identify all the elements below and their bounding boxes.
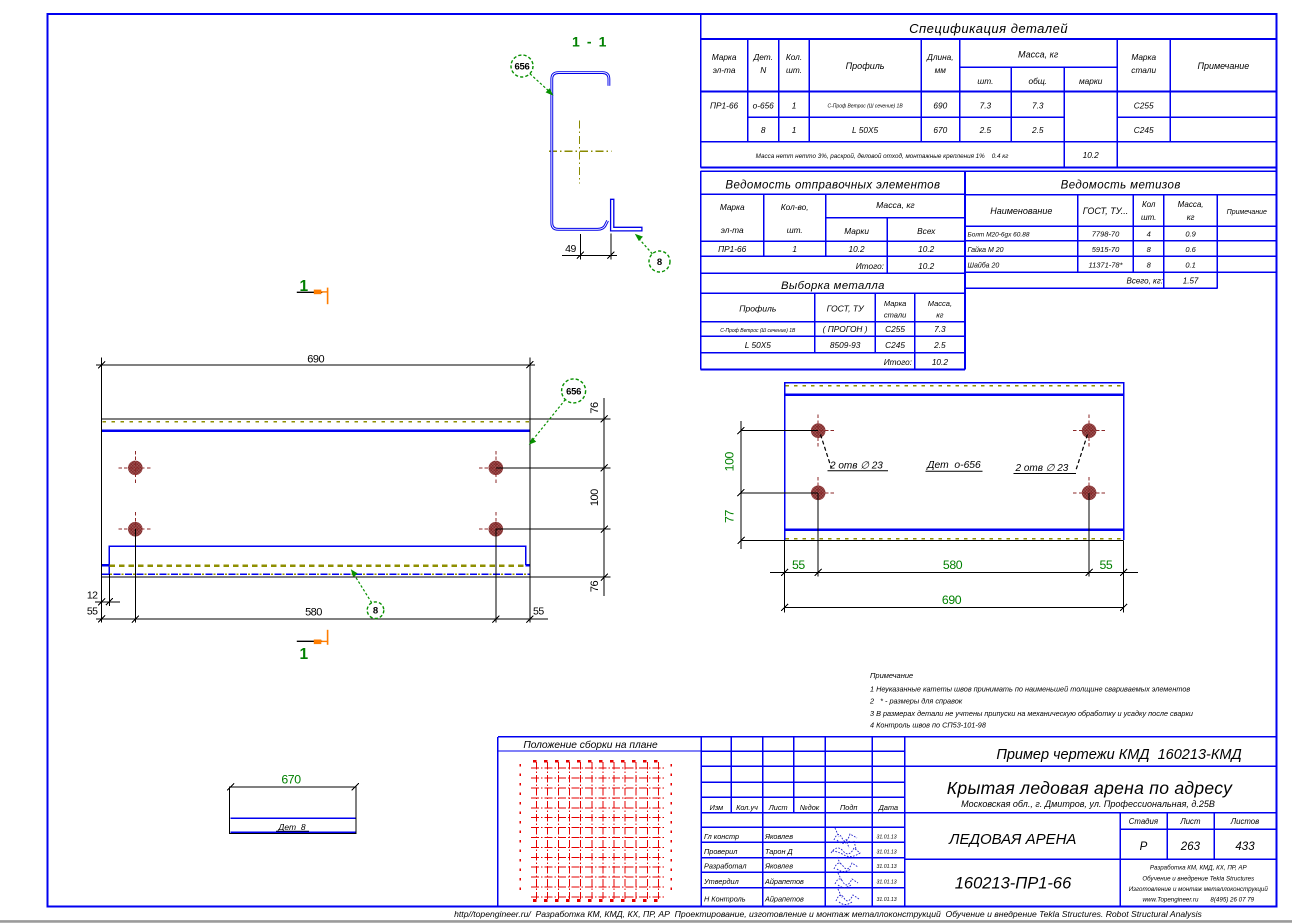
svg-text:10.2: 10.2 [918, 244, 935, 254]
angle detail 8 section outline [611, 199, 642, 231]
spec parts table grid (Спецификация деталей) [701, 14, 1277, 168]
svg-text:С255: С255 [1134, 101, 1154, 111]
svg-text:Лист: Лист [768, 803, 788, 812]
svg-text:10.2: 10.2 [849, 244, 866, 254]
svg-text:ГОСТ, ТУ: ГОСТ, ТУ [827, 304, 866, 314]
hidden channel edge top (olive dashed) [103, 421, 530, 423]
shipping elements table text [718, 180, 940, 271]
svg-text:Профиль: Профиль [739, 304, 777, 314]
svg-text:2.5: 2.5 [979, 125, 992, 135]
svg-text:160213-ПР1-66: 160213-ПР1-66 [955, 874, 1072, 892]
svg-text:Примечание: Примечание [870, 671, 913, 680]
bottom gray rule [0, 920, 1292, 923]
right side dimension chain 76/100/76 [496, 398, 611, 596]
svg-text:7.3: 7.3 [934, 324, 946, 334]
cold-formed channel o-656 section outline [552, 73, 609, 230]
svg-text:31.01.13: 31.01.13 [877, 879, 897, 885]
svg-text:www.Topengineer.ru 8(495: www.Topengineer.ru 8(495) 26 07 79 [1142, 897, 1254, 904]
svg-text:Н Контроль: Н Контроль [704, 894, 746, 903]
svg-text:1: 1 [792, 101, 797, 111]
svg-text:Профиль: Профиль [846, 61, 885, 71]
bolt hole A4 [479, 512, 513, 546]
svg-text:№док: №док [800, 803, 820, 812]
svg-text:8509-93: 8509-93 [830, 340, 861, 350]
svg-text:шт.: шт. [787, 225, 803, 235]
svg-text:2.5: 2.5 [933, 340, 946, 350]
svg-text:Дет 8: Дет 8 [277, 822, 305, 832]
svg-text:Марка: Марка [884, 299, 906, 308]
svg-text:С255: С255 [885, 324, 905, 334]
svg-text:Выборка металла: Выборка металла [781, 280, 885, 292]
svg-text:55: 55 [533, 606, 544, 618]
channel top flange edge (blue) [102, 429, 530, 432]
metal selection table grid (Выборка металла) [701, 293, 965, 369]
svg-text:55: 55 [792, 558, 805, 572]
svg-text:шт.: шт. [1141, 213, 1156, 222]
svg-text:С245: С245 [885, 340, 905, 350]
svg-text:Масса,: Масса, [1178, 200, 1204, 209]
svg-text:1 - 1: 1 - 1 [572, 34, 608, 50]
svg-text:Марка: Марка [1131, 52, 1156, 62]
svg-text:Итого:: Итого: [884, 357, 912, 367]
svg-text:10.2: 10.2 [918, 261, 935, 271]
svg-text:Изготовление и монтаж металлок: Изготовление и монтаж металлоконструкций [1129, 886, 1269, 893]
svg-text:Спецификация деталей: Спецификация деталей [909, 21, 1068, 36]
main elevation plate outline [102, 419, 611, 577]
svg-text:Яковлев: Яковлев [764, 832, 793, 841]
notes text (Примечание) [869, 671, 1193, 730]
svg-text:0.1: 0.1 [1185, 261, 1195, 270]
svg-text:Ведомость метизов: Ведомость метизов [1061, 180, 1181, 192]
svg-text:670: 670 [933, 125, 947, 135]
svg-text:Наименование: Наименование [990, 206, 1052, 216]
svg-text:Марки: Марки [844, 226, 869, 236]
svg-text:N: N [760, 65, 766, 75]
svg-text:ПР1-66: ПР1-66 [718, 244, 747, 254]
svg-text:С-Проф Ветрос (Ш сечение) 1В: С-Проф Ветрос (Ш сечение) 1В [720, 328, 796, 334]
svg-text:Московская обл., г. Дмитров, у: Московская обл., г. Дмитров, ул. Професс… [961, 799, 1215, 809]
svg-text:31.01.13: 31.01.13 [877, 849, 897, 855]
balloon 8 (main view) with leader [353, 573, 384, 619]
svg-text:1: 1 [792, 125, 797, 135]
plan hidden edges (olive dashed) [786, 385, 1123, 387]
svg-text:7.3: 7.3 [1032, 101, 1044, 111]
svg-text:100: 100 [589, 489, 601, 506]
balloon 656 (main view) with leader [531, 379, 586, 442]
bolt hole A3 [118, 512, 152, 546]
svg-text:Изм: Изм [710, 803, 724, 812]
svg-text:эл-та: эл-та [721, 225, 744, 235]
svg-text:690: 690 [307, 353, 324, 365]
svg-text:Всех: Всех [917, 226, 936, 236]
svg-text:Марка: Марка [720, 202, 745, 212]
svg-text:кг: кг [936, 311, 944, 320]
svg-text:Кол.: Кол. [786, 52, 802, 62]
svg-text:433: 433 [1235, 841, 1255, 853]
svg-text:580: 580 [943, 558, 963, 572]
svg-text:Разработка КМ, КМД, КХ, ПР, АР: Разработка КМ, КМД, КХ, ПР, АР [1150, 865, 1248, 872]
svg-text:Итого:: Итого: [856, 261, 884, 271]
svg-text:580: 580 [305, 607, 322, 619]
svg-text:3 В размерах детали не учтены: 3 В размерах детали не учтены припуски н… [870, 709, 1193, 718]
svg-text:Всего, кг:: Всего, кг: [1127, 276, 1163, 285]
svg-text:Кол.уч: Кол.уч [736, 803, 758, 812]
svg-text:С-Проф Ветрос (Ш сечение) 1В: С-Проф Ветрос (Ш сечение) 1В [828, 104, 904, 110]
svg-text:шт.: шт. [977, 76, 993, 86]
svg-text:Утвердил: Утвердил [703, 877, 739, 886]
svg-text:1.57: 1.57 [1183, 276, 1199, 285]
svg-text:( ПРОГОН ): ( ПРОГОН ) [823, 324, 868, 334]
hidden channel bottom flange edge (olive dashed) [109, 565, 525, 567]
svg-text:Подп: Подп [840, 803, 857, 812]
svg-text:ЛЕДОВАЯ АРЕНА: ЛЕДОВАЯ АРЕНА [948, 831, 1076, 848]
signature rows text [703, 832, 897, 904]
metal selection table text [720, 280, 952, 367]
svg-text:2.5: 2.5 [1031, 125, 1044, 135]
svg-text:656: 656 [566, 386, 581, 397]
assembly plan red grid [520, 761, 671, 900]
hardware table text [968, 180, 1268, 286]
svg-text:Стадия: Стадия [1129, 817, 1159, 826]
signature scribbles [831, 828, 860, 905]
angle detail 8 in elevation (blue outline) [102, 546, 530, 574]
svg-text:1: 1 [792, 244, 797, 254]
svg-text:Шайба 20: Шайба 20 [968, 262, 1000, 270]
svg-text:общ.: общ. [1028, 76, 1047, 86]
svg-text:1: 1 [299, 278, 308, 295]
svg-text:10.2: 10.2 [932, 357, 949, 367]
svg-text:Длина,: Длина, [926, 52, 954, 62]
svg-text:Кол-во,: Кол-во, [781, 202, 809, 212]
svg-text:31.01.13: 31.01.13 [877, 834, 897, 840]
svg-text:стали: стали [884, 311, 907, 320]
hole callout left: 2 holes dia 23 [821, 435, 889, 471]
svg-text:11371-78*: 11371-78* [1088, 261, 1123, 270]
svg-text:стали: стали [1131, 65, 1156, 75]
svg-text:5915-70: 5915-70 [1092, 245, 1120, 254]
svg-text:10.2: 10.2 [1083, 150, 1100, 160]
top dimension 690 [96, 358, 535, 420]
svg-text:8: 8 [1147, 245, 1152, 254]
dimension 49 under section [562, 234, 617, 260]
svg-text:55: 55 [1099, 558, 1112, 572]
svg-text:Масса, кг: Масса, кг [1018, 50, 1059, 60]
svg-text:http//topengineer.ru/ Разрабо: http//topengineer.ru/ Разработка КМ, КМД… [454, 909, 1202, 919]
svg-text:эл-та: эл-та [713, 65, 736, 75]
title block header row text [710, 803, 898, 812]
svg-text:Кол: Кол [1142, 200, 1156, 209]
svg-text:Гл констр: Гл констр [704, 832, 739, 841]
svg-text:49: 49 [565, 243, 576, 255]
svg-text:0.6: 0.6 [1185, 245, 1196, 254]
plan bolt hole B4 [1073, 477, 1105, 509]
hole callout right: 2 holes dia 23 [1014, 435, 1088, 474]
bolt hole A2 [479, 451, 513, 485]
svg-text:L 50X5: L 50X5 [745, 340, 772, 350]
svg-text:марки: марки [1079, 76, 1103, 86]
svg-text:Примечание: Примечание [1227, 209, 1267, 216]
svg-text:ПР1-66: ПР1-66 [710, 101, 739, 111]
svg-text:12: 12 [87, 589, 98, 601]
svg-text:8: 8 [373, 606, 378, 617]
svg-text:656: 656 [515, 62, 530, 73]
svg-text:7798-70: 7798-70 [1092, 229, 1120, 238]
plan bottom dimension chain 55/580/55 and 690 [770, 493, 1138, 613]
bottom dimension chain 12/55/580/55 [95, 529, 548, 622]
svg-text:шт.: шт. [786, 65, 802, 75]
svg-text:Проверил: Проверил [704, 847, 737, 856]
svg-text:Гайка М 20: Гайка М 20 [968, 246, 1004, 254]
svg-text:8: 8 [761, 125, 766, 135]
svg-text:Масса, кг: Масса, кг [876, 200, 915, 210]
detail 8 blue edges [230, 817, 355, 819]
svg-text:Р: Р [1140, 841, 1148, 853]
svg-text:4 Контроль швов по СП53-101-9: 4 Контроль швов по СП53-101-98 [870, 721, 987, 730]
svg-text:Айрапетов: Айрапетов [764, 877, 804, 886]
plan bolt hole B2 [1073, 415, 1105, 447]
svg-text:55: 55 [87, 606, 98, 618]
svg-text:Болт М20-6gх 60.88: Болт М20-6gх 60.88 [968, 231, 1030, 238]
plan plate bottom edge (black) [741, 539, 1124, 541]
svg-text:8: 8 [657, 257, 662, 268]
svg-text:Айрапетов: Айрапетов [764, 894, 804, 903]
spec table text [710, 21, 1249, 160]
svg-text:7.3: 7.3 [980, 101, 992, 111]
svg-text:76: 76 [589, 581, 601, 593]
svg-text:1 Неуказанные катеты швов при: 1 Неуказанные катеты швов принимать по н… [870, 684, 1190, 693]
svg-text:Ведомость отправочных элементо: Ведомость отправочных элементов [725, 180, 940, 192]
svg-text:Тарон Д: Тарон Д [765, 847, 793, 856]
svg-text:Масса нетт нетто 3%, раскрой,: Масса нетт нетто 3%, раскрой, деловой от… [756, 152, 1009, 160]
hidden edge (blue dashed with olive dots) [102, 573, 530, 575]
svg-text:690: 690 [942, 593, 962, 607]
svg-text:Положение сборки на плане: Положение сборки на плане [523, 739, 658, 751]
assembly location box (Положение сборки на плане) [498, 737, 702, 907]
section cut mark 1 (top) [297, 278, 328, 304]
svg-text:2 * - размеры для справок: 2 * - размеры для справок [869, 697, 963, 706]
svg-text:Лист: Лист [1179, 817, 1201, 826]
svg-text:2 отв ∅ 23: 2 отв ∅ 23 [829, 461, 883, 472]
svg-text:Крытая ледовая арена по адресу: Крытая ледовая арена по адресу [947, 778, 1233, 798]
hardware table grid (Ведомость метизов) [965, 171, 1277, 288]
svg-text:690: 690 [933, 101, 947, 111]
shipping elements table grid (Ведомость отправочных элементов) [701, 171, 1277, 369]
svg-text:2 отв ∅ 23: 2 отв ∅ 23 [1015, 463, 1069, 474]
svg-text:Дата: Дата [878, 803, 898, 812]
svg-text:ГОСТ, ТУ...: ГОСТ, ТУ... [1083, 206, 1129, 216]
svg-text:77: 77 [723, 510, 737, 523]
svg-text:мм: мм [935, 65, 947, 75]
plan left dimension chain 100/77 [737, 421, 818, 549]
svg-text:4: 4 [1147, 229, 1151, 238]
svg-text:76: 76 [589, 402, 601, 414]
plan view plate outline (blue) [785, 383, 1124, 540]
svg-text:Разработал: Разработал [704, 862, 747, 871]
section cut mark 1 (bottom) [297, 630, 328, 663]
bolt hole A1 [118, 451, 152, 485]
svg-text:0.9: 0.9 [1185, 229, 1196, 238]
title block grid [498, 737, 1277, 907]
plan bolt hole B1 [802, 415, 834, 447]
svg-text:С245: С245 [1134, 125, 1154, 135]
svg-text:Дет о-656: Дет о-656 [926, 460, 981, 471]
detail 8 strip view outline with dimension 670 [227, 783, 359, 833]
svg-text:Листов: Листов [1230, 817, 1259, 826]
svg-text:Примечание: Примечание [1197, 61, 1249, 71]
svg-text:31.01.13: 31.01.13 [877, 897, 897, 903]
svg-text:1: 1 [299, 646, 308, 663]
svg-text:8: 8 [1147, 261, 1152, 270]
balloon 8 (section) with leader [637, 237, 670, 273]
svg-text:Дет.: Дет. [752, 52, 773, 62]
section centerline cross [549, 121, 612, 184]
svg-text:Пример чертежи КМД 160213-КМД: Пример чертежи КМД 160213-КМД [996, 747, 1241, 763]
svg-text:Обучение и внедрение Tekla St: Обучение и внедрение Tekla Structures [1142, 876, 1254, 883]
svg-text:31.01.13: 31.01.13 [877, 864, 897, 870]
svg-text:кг: кг [1187, 213, 1195, 222]
svg-text:670: 670 [281, 773, 301, 787]
svg-text:L 50X5: L 50X5 [852, 125, 879, 135]
svg-text:Яковлев: Яковлев [764, 862, 793, 871]
balloon 656 (section) with leader [511, 55, 552, 94]
svg-text:Марка: Марка [712, 52, 737, 62]
svg-text:о-656: о-656 [753, 101, 775, 111]
plan bolt hole B3 [802, 477, 834, 509]
svg-text:Масса,: Масса, [928, 299, 952, 308]
svg-text:100: 100 [723, 451, 737, 471]
svg-text:263: 263 [1180, 841, 1201, 853]
